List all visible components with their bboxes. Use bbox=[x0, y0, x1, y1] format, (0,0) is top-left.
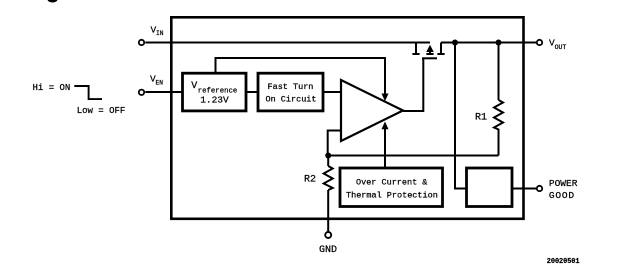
IC boundary box bbox=[171, 17, 523, 219]
label R1 bbox=[475, 113, 487, 124]
transistor Q1 PMOS pass device bbox=[412, 43, 444, 59]
label POWER GOOD bbox=[549, 178, 578, 201]
resistor R1 bbox=[494, 43, 503, 156]
svg-text:OUT: OUT bbox=[555, 44, 567, 51]
wire power good output bbox=[512, 188, 536, 190]
svg-text:Over Current &: Over Current & bbox=[356, 178, 427, 188]
wire FB line R2 to R1 bbox=[328, 155, 498, 157]
label Low = OFF bbox=[77, 106, 126, 116]
terminal VIN bbox=[139, 40, 144, 45]
wire VOUT rail bbox=[441, 42, 536, 44]
op-amp U3 error amplifier bbox=[341, 80, 403, 141]
svg-text:Fast Turn: Fast Turn bbox=[268, 82, 314, 92]
wire VIN rail bbox=[145, 42, 430, 44]
svg-text:20020501: 20020501 bbox=[547, 258, 580, 266]
label 20020501 bbox=[547, 258, 580, 266]
svg-text:EN: EN bbox=[156, 80, 164, 87]
svg-text:Thermal Protection: Thermal Protection bbox=[346, 191, 438, 201]
svg-text:V: V bbox=[191, 81, 197, 92]
terminal VEN bbox=[139, 90, 144, 95]
svg-text:Low = OFF: Low = OFF bbox=[77, 106, 126, 116]
wire amp inverting input stub bbox=[328, 131, 341, 156]
block U2 Fast Turn On Circuit bbox=[258, 73, 323, 111]
wire VEN to reference block bbox=[145, 91, 182, 93]
label VEN bbox=[150, 74, 163, 87]
svg-text:Hi = ON: Hi = ON bbox=[33, 83, 71, 93]
terminal POWER GOOD bbox=[537, 186, 542, 191]
block U5 power good comparator bbox=[467, 168, 513, 207]
svg-text:R1: R1 bbox=[475, 113, 487, 124]
svg-text:On Circuit: On Circuit bbox=[266, 95, 317, 105]
block U4 Over Current & Thermal Protection bbox=[340, 168, 443, 207]
enable step waveform bbox=[74, 86, 102, 99]
label GND bbox=[319, 245, 337, 256]
wire FB to protection block bbox=[384, 156, 386, 169]
wire VOUT sense to power-good comparator bbox=[455, 43, 467, 189]
node VOUT junction B (R1 tap) bbox=[496, 40, 502, 46]
label VIN bbox=[151, 25, 164, 37]
svg-text:1.23V: 1.23V bbox=[200, 94, 229, 105]
label Hi = ON bbox=[33, 83, 71, 93]
resistor R2 bbox=[324, 156, 333, 232]
wire feedback up-arrow into amp bottom bbox=[382, 122, 389, 156]
wire amp output to gate bbox=[403, 58, 423, 111]
ground terminal GND bbox=[325, 232, 331, 238]
label R2 bbox=[304, 175, 316, 186]
wire reference top line into amp (with down arrow) bbox=[216, 58, 389, 101]
node FB junction bbox=[325, 153, 331, 159]
svg-text:GOOD: GOOD bbox=[549, 190, 575, 201]
node VOUT junction A bbox=[452, 40, 458, 46]
wire reference to fast-turn block bbox=[246, 91, 258, 93]
caption fragment (clipped descender of figure title) bbox=[48, 0, 58, 3]
svg-text:GND: GND bbox=[319, 245, 337, 256]
svg-text:R2: R2 bbox=[304, 175, 316, 186]
label VOUT bbox=[549, 38, 566, 51]
terminal VOUT bbox=[537, 40, 542, 45]
wire fast-turn block to error amp bbox=[323, 91, 341, 93]
block U1 Vreference 1.23V bbox=[183, 73, 247, 111]
svg-text:POWER: POWER bbox=[549, 178, 578, 189]
svg-text:IN: IN bbox=[156, 30, 164, 37]
